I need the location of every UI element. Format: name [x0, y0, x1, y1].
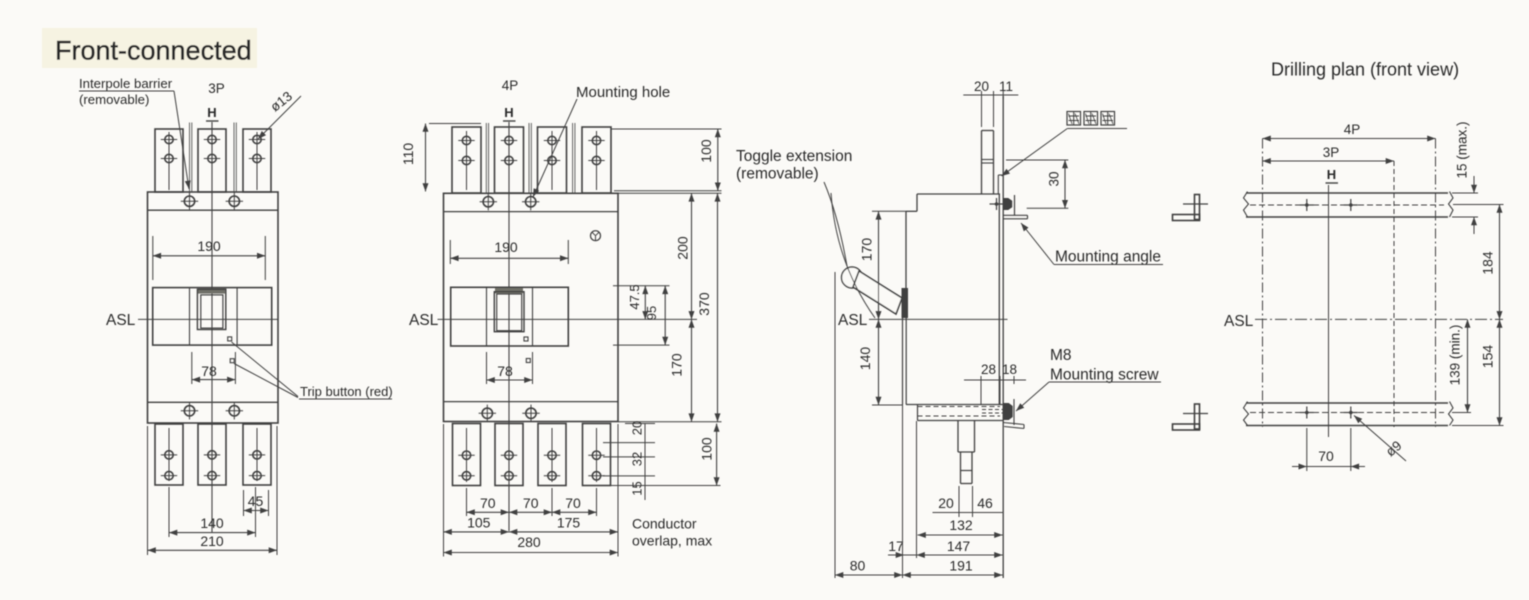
- svg-text:147: 147: [947, 538, 971, 554]
- svg-text:20: 20: [630, 421, 645, 435]
- svg-text:Toggle extension: Toggle extension: [736, 148, 852, 165]
- svg-text:Trip button (red): Trip button (red): [300, 384, 393, 399]
- svg-text:105: 105: [467, 515, 491, 531]
- svg-text:4P: 4P: [1344, 122, 1361, 137]
- svg-text:191: 191: [949, 558, 973, 574]
- svg-text:M8: M8: [1050, 347, 1072, 364]
- svg-text:32: 32: [630, 452, 645, 466]
- svg-text:139 (min.): 139 (min.): [1448, 325, 1463, 386]
- svg-text:190: 190: [197, 238, 221, 254]
- svg-text:11: 11: [999, 79, 1013, 94]
- svg-text:30: 30: [1047, 171, 1062, 186]
- svg-text:70: 70: [565, 495, 581, 511]
- svg-text:3P: 3P: [208, 81, 225, 96]
- svg-text:170: 170: [859, 238, 875, 262]
- svg-text:ASL: ASL: [409, 312, 439, 329]
- svg-text:15: 15: [630, 481, 645, 495]
- svg-text:Interpole barrier: Interpole barrier: [79, 76, 173, 91]
- svg-text:(removable): (removable): [736, 166, 819, 183]
- svg-text:280: 280: [517, 534, 541, 550]
- svg-text:3P: 3P: [1323, 145, 1340, 160]
- svg-text:4P: 4P: [502, 78, 519, 93]
- svg-text:110: 110: [400, 143, 416, 166]
- svg-text:Mounting screw: Mounting screw: [1050, 367, 1159, 384]
- svg-text:78: 78: [497, 363, 513, 379]
- svg-text:132: 132: [949, 517, 973, 533]
- svg-text:370: 370: [696, 292, 712, 316]
- svg-text:175: 175: [557, 515, 581, 531]
- svg-text:H: H: [1327, 167, 1336, 182]
- svg-text:70: 70: [523, 495, 539, 511]
- svg-text:70: 70: [480, 495, 496, 511]
- svg-text:100: 100: [699, 437, 715, 461]
- svg-text:190: 190: [494, 239, 518, 255]
- svg-text:15 (max.): 15 (max.): [1455, 121, 1470, 178]
- svg-text:H: H: [207, 105, 216, 120]
- svg-text:100: 100: [698, 139, 714, 163]
- svg-text:47.5: 47.5: [627, 284, 642, 309]
- svg-text:(removable): (removable): [79, 92, 149, 107]
- svg-text:Drilling plan (front view): Drilling plan (front view): [1271, 60, 1459, 80]
- svg-text:210: 210: [200, 533, 224, 549]
- svg-text:70: 70: [1318, 448, 1334, 464]
- svg-text:Mounting angle: Mounting angle: [1055, 249, 1161, 266]
- svg-text:ASL: ASL: [838, 312, 868, 329]
- svg-text:46: 46: [977, 495, 993, 511]
- svg-text:154: 154: [1480, 345, 1496, 369]
- svg-text:200: 200: [675, 236, 691, 260]
- svg-text:Conductor: Conductor: [632, 516, 697, 532]
- svg-text:140: 140: [200, 515, 224, 531]
- svg-text:140: 140: [857, 347, 873, 371]
- svg-text:ASL: ASL: [1224, 313, 1254, 330]
- svg-text:184: 184: [1480, 251, 1496, 275]
- svg-text:overlap, max: overlap, max: [632, 533, 712, 549]
- svg-text:95: 95: [644, 306, 659, 320]
- svg-text:Mounting hole: Mounting hole: [576, 84, 670, 101]
- svg-text:170: 170: [669, 353, 685, 377]
- svg-text:78: 78: [201, 363, 217, 379]
- svg-text:20: 20: [938, 495, 954, 511]
- svg-text:Front-connected: Front-connected: [55, 36, 252, 66]
- svg-text:28: 28: [981, 362, 996, 377]
- svg-text:17: 17: [888, 538, 904, 554]
- svg-text:80: 80: [850, 558, 866, 574]
- svg-text:18: 18: [1002, 362, 1017, 377]
- svg-text:H: H: [504, 105, 513, 120]
- svg-text:ASL: ASL: [106, 312, 136, 329]
